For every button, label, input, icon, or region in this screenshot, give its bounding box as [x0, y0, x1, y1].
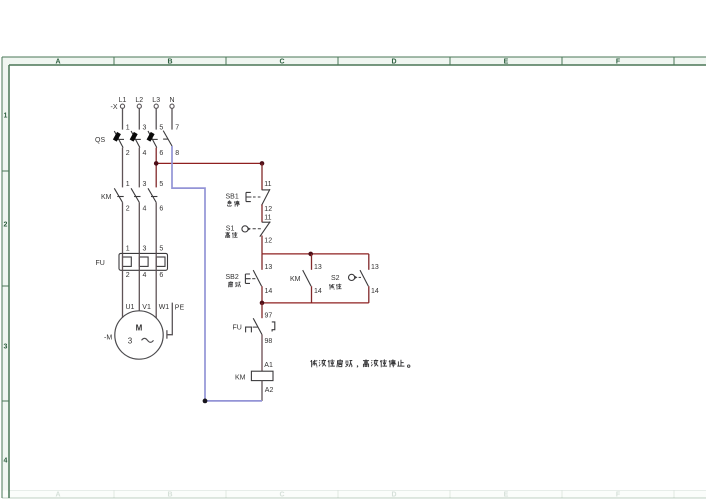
wire parallel top rail	[262, 253, 369, 255]
wire FU2 to motor V1	[138, 270, 140, 311]
wire KM1 to FU	[122, 202, 124, 253]
svg-text:4: 4	[143, 272, 147, 279]
svg-text:W1: W1	[159, 304, 170, 311]
motor M circle	[115, 311, 163, 359]
svg-text:3: 3	[143, 125, 147, 132]
wire branch2 bottom stub	[311, 286, 313, 303]
svg-text:2: 2	[126, 206, 130, 213]
svg-text:14: 14	[314, 288, 322, 295]
wire node L3tap to KM3	[155, 163, 157, 187]
svg-text:L1: L1	[119, 97, 127, 104]
frame inner border top	[9, 64, 706, 66]
contactor KM aux NO contact	[303, 270, 311, 286]
svg-text:-X: -X	[111, 104, 118, 111]
svg-text:97: 97	[265, 312, 273, 319]
svg-text:14: 14	[371, 288, 379, 295]
wire SB1 to S1	[261, 205, 263, 223]
wire branch3 bottom stub	[368, 286, 370, 303]
svg-text:D: D	[391, 492, 396, 499]
svg-text:S2: S2	[331, 275, 340, 282]
svg-text:SB2: SB2	[226, 274, 239, 281]
svg-text:4: 4	[4, 458, 8, 465]
wire coil to N rail	[261, 381, 263, 401]
switch S2 NO contact	[360, 270, 368, 286]
fuse FU tab 1	[123, 257, 132, 266]
terminal -X L1	[120, 104, 124, 108]
svg-text:E: E	[504, 59, 509, 66]
motor sine wave	[142, 338, 154, 342]
wire KM2 to FU	[138, 202, 140, 253]
svg-text:C: C	[279, 59, 284, 66]
label qidong	[228, 281, 232, 287]
terminal L3	[154, 104, 158, 108]
svg-text:M: M	[136, 324, 143, 333]
wire FU3 to motor W1	[155, 270, 157, 318]
node KM branch top	[308, 252, 313, 257]
svg-text:1: 1	[4, 113, 8, 120]
svg-text:98: 98	[265, 338, 273, 345]
switch QS pole N	[163, 131, 172, 146]
contactor KM pole 3	[148, 188, 157, 202]
frame top zone ticks	[114, 57, 674, 65]
svg-text:-M: -M	[104, 335, 112, 342]
svg-text:SB1: SB1	[226, 193, 239, 200]
wire PE	[167, 303, 172, 335]
switch QS pole 1	[114, 131, 124, 148]
frame outer left line	[1, 57, 3, 498]
svg-text:S1: S1	[226, 225, 235, 232]
frame zone letters top	[55, 59, 620, 66]
svg-text:L3: L3	[152, 97, 160, 104]
fuse FU block outer	[119, 253, 168, 270]
fuse FU tab 2	[139, 257, 148, 266]
SB2 mushroom actuator	[245, 274, 255, 283]
svg-text:3: 3	[143, 245, 147, 252]
wire control drop to SB1	[261, 163, 263, 190]
svg-text:A: A	[55, 492, 60, 499]
wire L1 to QS	[122, 108, 124, 129]
svg-text:5: 5	[159, 245, 163, 252]
svg-text:A2: A2	[265, 387, 274, 394]
label jiting	[227, 201, 231, 207]
wire parallel bottom rail	[262, 302, 369, 304]
frame inner border left	[8, 65, 10, 498]
terminal L2	[137, 104, 141, 108]
svg-text:5: 5	[159, 125, 163, 132]
wire through fuse 2	[138, 253, 140, 270]
svg-text:V1: V1	[142, 304, 151, 311]
svg-text:KM: KM	[235, 375, 246, 382]
wire L2 to QS	[138, 108, 140, 129]
svg-text:1: 1	[126, 125, 130, 132]
wire S1 to rail	[261, 236, 263, 254]
svg-text:QS: QS	[95, 137, 105, 144]
svg-text:6: 6	[159, 206, 163, 213]
svg-text:E: E	[504, 492, 509, 499]
wire QS1 to KM1	[122, 148, 124, 188]
svg-text:KM: KM	[101, 194, 112, 201]
wire rail to FR	[261, 303, 263, 318]
thermal FU NC contact	[253, 318, 262, 334]
svg-text:B: B	[167, 59, 172, 66]
switch QS pole 3	[148, 131, 158, 148]
label diwei	[329, 284, 334, 290]
wire QS3 to node L3tap	[155, 148, 157, 164]
frame bottom band line	[9, 490, 706, 492]
frame bottom zone ticks	[114, 491, 674, 499]
svg-text:11: 11	[264, 215, 271, 222]
svg-text:12: 12	[264, 206, 272, 213]
node L3 tap	[154, 161, 159, 166]
frame left zone ticks	[2, 171, 9, 401]
svg-text:2: 2	[126, 150, 130, 157]
svg-text:1: 1	[126, 181, 130, 188]
svg-text:2: 2	[126, 272, 130, 279]
S1 circle actuator	[242, 226, 261, 232]
frame bottom outer line	[2, 497, 706, 499]
contactor KM pole 1	[114, 188, 123, 202]
wire through fuse 3	[155, 253, 157, 270]
svg-text:1: 1	[126, 245, 130, 252]
terminal N	[170, 104, 174, 108]
wire branch1 top stub	[261, 254, 263, 270]
node branch bottom	[260, 301, 265, 306]
wire KM3 to FU	[155, 202, 157, 253]
frame outer top line	[2, 56, 706, 58]
wire QS2 to KM2	[138, 148, 140, 188]
svg-text:3: 3	[143, 181, 147, 188]
svg-text:3: 3	[4, 344, 8, 351]
svg-text:L2: L2	[135, 97, 143, 104]
svg-text:A: A	[55, 59, 60, 66]
wire N bus	[172, 146, 262, 401]
svg-text:A1: A1	[264, 362, 273, 369]
svg-text:13: 13	[314, 264, 322, 271]
fuse FU tab 3	[156, 257, 165, 266]
svg-text:3: 3	[128, 337, 133, 346]
svg-text:F: F	[616, 492, 621, 499]
svg-text:5: 5	[159, 181, 163, 188]
svg-text:4: 4	[143, 150, 147, 157]
switch S1 NC contact	[260, 222, 271, 237]
switch QS pole 2	[131, 131, 141, 148]
svg-text:FU: FU	[96, 260, 105, 267]
svg-text:14: 14	[265, 288, 273, 295]
S2 circle actuator	[349, 274, 362, 280]
svg-text:N: N	[169, 97, 174, 104]
svg-text:4: 4	[143, 206, 147, 213]
node N corner	[203, 399, 208, 404]
svg-text:7: 7	[175, 125, 179, 132]
wire branch2 top stub	[311, 254, 313, 270]
wire control feed horizontal	[156, 162, 262, 164]
svg-text:6: 6	[159, 150, 163, 157]
svg-text:FU: FU	[233, 324, 242, 331]
svg-text:13: 13	[265, 264, 273, 271]
wire branch3 top stub	[368, 254, 370, 270]
svg-text:U1: U1	[126, 304, 135, 311]
SB1 mushroom actuator	[246, 192, 260, 201]
contactor KM pole 2	[131, 188, 140, 202]
label gaowei	[225, 232, 230, 238]
thermal bracket symbol	[272, 322, 275, 332]
thermal heater element	[246, 327, 252, 332]
svg-text:12: 12	[264, 238, 272, 245]
node control top	[260, 161, 265, 166]
svg-text:PE: PE	[175, 304, 185, 311]
svg-text:B: B	[167, 492, 172, 499]
svg-text:11: 11	[264, 181, 271, 188]
note text sentence	[311, 359, 410, 367]
wire FU1 to motor U1	[122, 270, 124, 318]
PE tick at motor	[166, 330, 168, 339]
wire through fuse 1	[122, 253, 124, 270]
svg-text:KM: KM	[290, 276, 301, 283]
coil KM	[251, 371, 273, 380]
wire N to QS	[171, 108, 173, 129]
pushbutton SB1 NC contact	[262, 189, 270, 205]
svg-text:2: 2	[4, 222, 8, 229]
svg-text:F: F	[616, 59, 621, 66]
svg-text:D: D	[391, 59, 396, 66]
svg-text:8: 8	[175, 150, 179, 157]
wire branch1 bottom stub	[261, 286, 263, 303]
svg-text:6: 6	[159, 272, 163, 279]
svg-text:13: 13	[371, 264, 379, 271]
frame zone numbers left	[4, 113, 8, 465]
frame zone letters bottom	[55, 492, 620, 499]
pushbutton SB2 NO contact	[253, 270, 261, 286]
wire FR to coil	[261, 335, 263, 372]
svg-text:C: C	[279, 492, 284, 499]
wire L3 to QS	[155, 108, 157, 129]
